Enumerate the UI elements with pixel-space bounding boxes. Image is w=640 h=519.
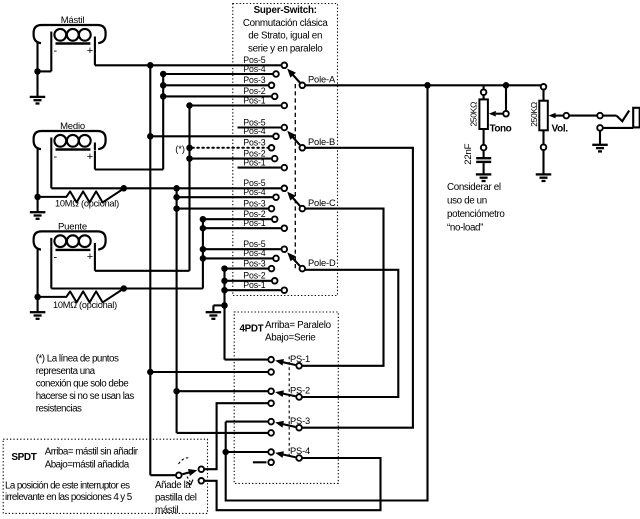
svg-text:PS-2: PS-2	[290, 385, 310, 395]
wire Puente minus lead	[50, 247, 52, 289]
pickup coil Puente	[34, 231, 106, 249]
svg-text:Pos-1: Pos-1	[243, 95, 265, 105]
junction dots on Puente-minus bus	[200, 216, 207, 223]
svg-text:+: +	[87, 251, 93, 263]
svg-text:Considerar el: Considerar el	[447, 182, 501, 193]
svg-text:Arriba= Paralelo: Arriba= Paralelo	[265, 320, 332, 331]
wire Pole-B Pos-1	[238, 167, 281, 169]
wire PS-4 wiper to SPDT lower	[204, 458, 380, 510]
svg-text:22nF: 22nF	[463, 143, 474, 164]
ground Medio	[30, 211, 45, 213]
junction dots on Pole-A output	[424, 82, 431, 89]
svg-text:Pos-4: Pos-4	[243, 64, 265, 74]
wire Pole-B Pos-4	[150, 135, 272, 137]
Vol bottom lead	[542, 130, 544, 144]
wire Pole-C Pos-5	[51, 187, 281, 189]
switch SPDT common contact	[176, 472, 182, 478]
wire Pole-C Pos-4	[177, 196, 273, 198]
svg-text:Pole-B: Pole-B	[308, 137, 335, 147]
wiper arrow Pole-B	[292, 137, 300, 145]
svg-text:Pos-4: Pos-4	[243, 248, 265, 258]
ground C1	[476, 173, 492, 175]
wiper arrow PS-3	[282, 424, 295, 427]
svg-text:Medio: Medio	[60, 121, 85, 132]
wiper arrow PS-1	[282, 362, 295, 365]
ground jack	[592, 144, 608, 146]
wire Pole-A output to pots	[305, 84, 544, 86]
switch PS-4 upper contact	[268, 449, 274, 455]
contact Pole-A Pos-1	[282, 103, 288, 109]
switch SPDT lower contact	[199, 478, 205, 484]
contact Pole-C Pos-5	[282, 186, 288, 192]
switch PS-3 lower contact	[268, 430, 274, 436]
svg-text:PS-3: PS-3	[290, 416, 310, 426]
contact Pole-D Pos-2	[272, 278, 278, 284]
wire Pole-A riser to PS3/PS4 rail	[226, 85, 428, 500]
wire Pole-A Pos-1	[190, 104, 281, 106]
wire Pole-A Pos-4	[163, 73, 272, 75]
svg-text:-: -	[53, 251, 57, 263]
contact Pole-D Pos-4	[273, 256, 279, 262]
wire Mastil plus riser	[94, 44, 96, 65]
wiper arrow Pole-D	[293, 258, 300, 266]
wire Pole-D Pos-3	[225, 268, 269, 270]
wiper arrow PS-4	[282, 454, 295, 457]
junction R-Medio right	[121, 185, 128, 192]
pole contact Pole-B	[300, 145, 306, 151]
4PDT dotted enclosure	[234, 312, 338, 483]
wire PS-4 upper feed	[226, 451, 269, 453]
contact Pole-C Pos-2	[272, 216, 278, 222]
potentiometer Tono 250K	[483, 85, 485, 89]
svg-text:Pos-4: Pos-4	[243, 187, 265, 197]
svg-text:Puente: Puente	[58, 221, 87, 232]
potentiometer Vol 250K	[541, 84, 547, 90]
SPDT alt-position dashed arrow	[187, 477, 190, 483]
contact Pole-C Pos-1	[282, 225, 288, 231]
svg-text:pastilla del: pastilla del	[155, 493, 197, 504]
wiper arrow Pole-A	[292, 74, 299, 82]
junction dots on ground bus	[221, 265, 228, 272]
Tono bottom lead	[483, 129, 485, 145]
svg-text:Conmutación clásica: Conmutación clásica	[243, 18, 329, 29]
contact Pole-A Pos-2	[272, 94, 278, 100]
svg-text:4PDT: 4PDT	[240, 323, 264, 334]
svg-text:Tono: Tono	[490, 124, 512, 135]
switch PS-4 lower contact	[268, 460, 274, 466]
svg-text:Pos-3: Pos-3	[243, 75, 265, 85]
wire Pole-A Pos-5	[95, 64, 281, 66]
wiper arrow SPDT	[182, 472, 190, 474]
switch PS-3 wiper contact	[296, 425, 302, 431]
junction R-Puente right	[121, 285, 128, 292]
wire Pole-D Pos-4	[203, 257, 273, 259]
wire Pole-B Pos-3	[192, 147, 268, 149]
contact Pole-C Pos-3	[269, 206, 275, 212]
svg-text:hacerse si no se usan las: hacerse si no se usan las	[36, 391, 135, 402]
Vol wiper	[549, 113, 556, 119]
wire ground tap	[213, 304, 224, 306]
wire Pole-D Pos-5	[203, 248, 281, 250]
switch PS-1 lower contact	[268, 369, 274, 375]
wire bus Mastil-plus vertical	[149, 65, 151, 475]
svg-text:Mástil: Mástil	[61, 15, 85, 26]
junction Puente ground node	[34, 294, 41, 301]
core bar Puente	[56, 249, 91, 251]
contact Pole-D Pos-1	[282, 287, 288, 293]
wire bus Puente-minus vertical	[202, 219, 204, 288]
wire Pole-D to PS-2 wiper	[302, 270, 398, 397]
svg-text:Pole-C: Pole-C	[308, 198, 336, 208]
svg-text:Abajo=mástil añadida: Abajo=mástil añadida	[45, 460, 130, 471]
wire Pole-C to PS-1 wiper	[302, 209, 384, 366]
wire bus Medio-plus vertical	[162, 74, 164, 170]
core bar M&#225;stil	[56, 42, 91, 44]
svg-text:“no-load”: “no-load”	[447, 223, 483, 234]
wire PS-1 lower feed	[150, 371, 268, 373]
junction dots on Puente-plus bus	[186, 102, 193, 109]
wire PS-4 lower stub	[253, 461, 267, 463]
junction dot PS-4 upper feed	[222, 449, 229, 456]
wire bus Puente-plus vertical	[188, 106, 190, 271]
wire Pole-C Pos-2	[203, 218, 271, 220]
ground Vol	[536, 173, 552, 175]
switch SPDT upper contact	[199, 466, 205, 472]
svg-text:Pos-1: Pos-1	[243, 157, 265, 167]
wire PS-3 upper feed	[226, 421, 269, 423]
wire Pole-D Pos-2	[225, 280, 272, 282]
SPDT throw indicator dashed arc	[179, 458, 191, 464]
contact Pole-A Pos-3	[269, 83, 275, 89]
svg-text:10MΩ (opcional): 10MΩ (opcional)	[55, 198, 119, 208]
switch PS-1 upper contact	[268, 357, 274, 363]
capacitor C1 22nF	[476, 157, 491, 159]
ground switch common	[206, 311, 222, 313]
wire Pole-C Pos-3	[177, 208, 269, 210]
svg-text:Pole-D: Pole-D	[308, 258, 336, 268]
contact Pole-A Pos-4	[273, 71, 279, 77]
wire Puente shield lead	[37, 249, 39, 312]
jack sleeve ground	[599, 131, 601, 145]
contact Pole-B Pos-3	[269, 145, 275, 151]
wire Mastil minus lead	[50, 41, 52, 72]
svg-text:Pos-3: Pos-3	[243, 198, 265, 208]
wire Pole-B Pos-5	[238, 126, 281, 128]
svg-text:-: -	[53, 151, 57, 163]
contact Pole-D Pos-3	[269, 266, 275, 272]
wire PS-2 lower to SPDT upper	[204, 403, 268, 469]
Tono wiper	[505, 85, 507, 111]
contact Pole-D Pos-5	[282, 246, 288, 252]
svg-text:(*): (*)	[175, 144, 185, 154]
svg-text:Pos-3: Pos-3	[243, 138, 265, 148]
svg-text:Pos-1: Pos-1	[243, 218, 265, 228]
pole contact Pole-D	[300, 266, 306, 272]
ground Puente	[30, 311, 45, 313]
SPDT dotted enclosure	[3, 439, 207, 513]
super-switch mechanical linkage dashed	[294, 84, 296, 271]
svg-text:250KΩ: 250KΩ	[529, 101, 539, 126]
switch PS-2 lower contact	[268, 400, 274, 406]
pickup coil Medio	[34, 131, 106, 149]
switch PS-4 wiper contact	[296, 455, 302, 461]
switch PS-2 upper contact	[268, 388, 274, 394]
svg-text:La posición de este interrupto: La posición de este interruptor es	[5, 480, 130, 491]
wire bus ground vertical	[223, 269, 225, 360]
svg-text:uso de un: uso de un	[447, 196, 487, 207]
svg-text:conexión que solo debe: conexión que solo debe	[36, 379, 130, 390]
wire Puente plus riser	[94, 251, 96, 271]
switch PS-2 wiper contact	[296, 394, 302, 400]
jack sleeve contact	[597, 125, 603, 131]
pole contact Pole-A	[300, 83, 306, 89]
core bar Medio	[56, 148, 91, 150]
svg-text:representa una: representa una	[36, 366, 96, 377]
svg-text:Añade la: Añade la	[155, 480, 191, 491]
wire Medio shield lead	[37, 149, 39, 212]
wiper arrow PS-2	[282, 394, 295, 397]
wire Pole-D Pos-1	[225, 289, 281, 291]
wire Medio plus riser	[94, 151, 96, 170]
super-switch dotted enclosure	[233, 4, 338, 296]
wire PS-2 upper feed	[177, 390, 269, 392]
svg-text:SPDT: SPDT	[11, 452, 36, 463]
svg-text:Abajo=Serie: Abajo=Serie	[265, 333, 316, 344]
svg-text:Vol.: Vol.	[552, 124, 569, 135]
svg-text:PS-4: PS-4	[290, 446, 310, 456]
svg-text:resistencias: resistencias	[36, 404, 82, 415]
svg-text:Pos-1: Pos-1	[243, 280, 265, 290]
wire Pole-A Pos-2	[163, 95, 271, 97]
svg-text:de Strato, igual en: de Strato, igual en	[248, 31, 322, 42]
svg-text:Pos-3: Pos-3	[243, 258, 265, 268]
resistor R-Medio 10M	[38, 189, 124, 203]
junction dots on Medio-plus bus	[160, 71, 167, 78]
svg-text:serie y en paralelo: serie y en paralelo	[248, 43, 323, 54]
pickup coil M&#225;stil	[34, 25, 106, 43]
contact Pole-B Pos-5	[282, 125, 288, 131]
wire bus Medio-minus vertical	[176, 188, 178, 433]
resistor R-Puente 10M	[38, 289, 124, 303]
junction dots on Medio-minus bus	[173, 185, 180, 192]
contact Pole-B Pos-2	[272, 156, 278, 162]
svg-text:+: +	[87, 151, 93, 163]
switch PS-3 upper contact	[268, 419, 274, 425]
wire Mastil shield lead	[36, 43, 38, 97]
pole contact Pole-C	[300, 206, 306, 212]
contact Pole-C Pos-4	[273, 194, 279, 200]
wiper arrow Pole-C	[292, 197, 300, 205]
ground Mastil	[30, 96, 46, 98]
svg-text:10MΩ (opcional): 10MΩ (opcional)	[53, 300, 117, 310]
junction Mastil ground node	[34, 68, 41, 75]
wire Pole-B to PS-3 wiper	[302, 148, 413, 428]
wire Pole-A Pos-3	[163, 84, 268, 86]
wire Pole-B Pos-2	[190, 158, 272, 160]
contact Pole-B Pos-1	[282, 165, 288, 171]
svg-text:Arriba= mástil sin añadir: Arriba= mástil sin añadir	[45, 446, 139, 457]
svg-text:Pos-4: Pos-4	[243, 126, 265, 136]
svg-text:-: -	[53, 45, 57, 57]
junction dots on Mastil-plus bus	[147, 62, 154, 69]
svg-text:mástil: mástil	[155, 505, 178, 516]
contact Pole-B Pos-4	[273, 134, 279, 140]
switch PS-1 wiper contact	[296, 363, 302, 369]
svg-text:250KΩ: 250KΩ	[469, 101, 479, 126]
svg-text:Pole-A: Pole-A	[308, 75, 336, 85]
jack tip contact	[597, 113, 603, 119]
svg-text:Super-Switch:: Super-Switch:	[254, 5, 317, 16]
contact Pole-A Pos-5	[282, 63, 288, 69]
svg-text:+: +	[87, 45, 93, 57]
jack body	[633, 108, 640, 128]
svg-text:potenciómetro: potenciómetro	[447, 209, 505, 220]
svg-text:irrelevante en las posiciones: irrelevante en las posiciones 4 y 5	[5, 492, 133, 503]
junction Medio ground node	[34, 194, 41, 201]
svg-text:PS-1: PS-1	[290, 354, 310, 364]
4PDT mechanical linkage dashed	[288, 357, 290, 459]
wire Medio minus lead	[50, 147, 52, 189]
wire Pole-C Pos-1	[203, 227, 281, 229]
svg-text:(*) La línea de puntos: (*) La línea de puntos	[36, 353, 119, 364]
